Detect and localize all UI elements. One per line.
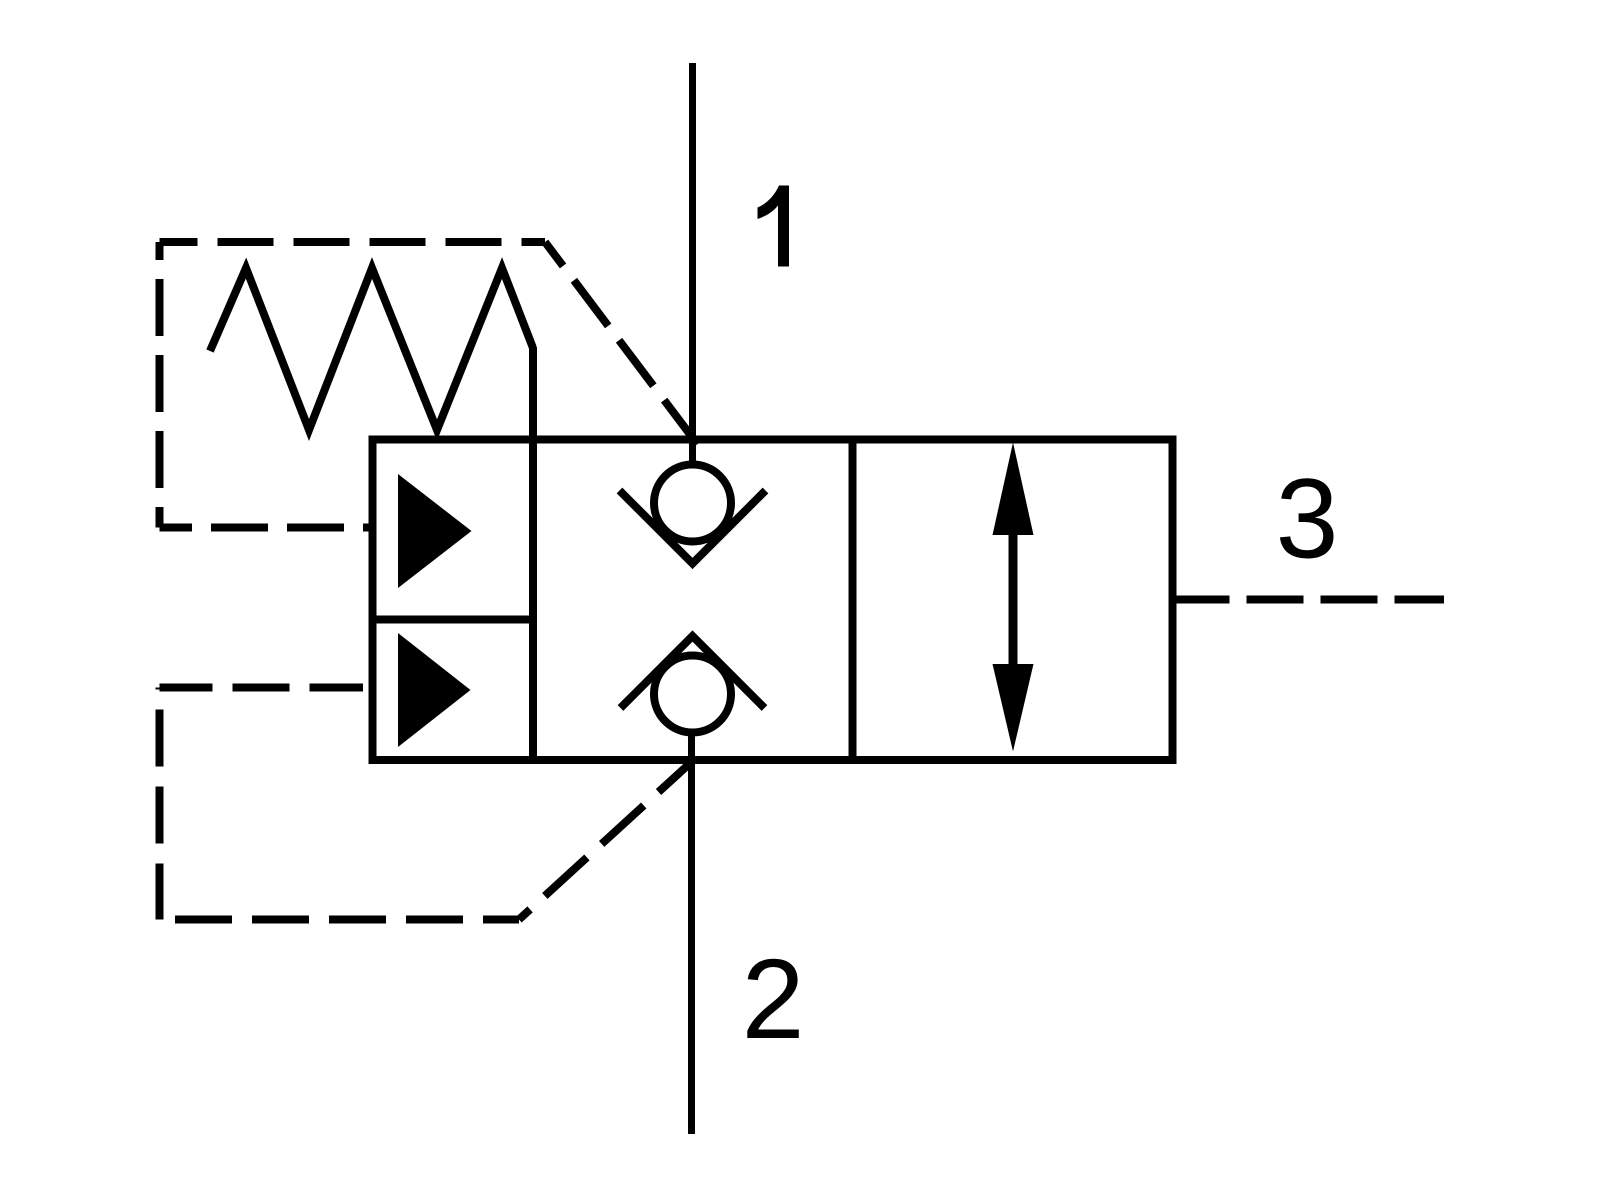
flow arrow double-headed	[993, 443, 1034, 752]
pilot triangle lower	[398, 633, 471, 747]
wire divider right	[849, 440, 857, 761]
wire pilot dashed upper top edge	[160, 238, 546, 246]
check valve upper	[620, 465, 766, 564]
wire pilot dashed upper diagonal	[545, 242, 697, 444]
wire pilot dashed upper left edge	[156, 242, 164, 528]
wire pilot dashed upper bottom edge	[160, 524, 373, 532]
wire pilot dashed lower top edge	[160, 684, 364, 692]
pilot triangle upper	[398, 474, 472, 588]
check valve lower	[621, 636, 765, 733]
wire pilot dashed lower diagonal	[519, 757, 696, 919]
spring	[210, 268, 533, 430]
wire divider with spring connection	[529, 347, 537, 760]
wire pilot dashed lower bottom edge	[160, 916, 520, 924]
node 1 label	[758, 186, 790, 267]
wire port 2 vertical line	[688, 733, 695, 1134]
wire pilot dashed lower left edge	[156, 688, 164, 920]
wire pilot cell divider	[373, 616, 534, 624]
valve body outline	[373, 440, 1173, 761]
wire port 3 dashed line	[1173, 596, 1445, 604]
svg-text:2: 2	[742, 936, 805, 1062]
wire port 1 vertical line	[689, 63, 696, 466]
svg-text:3: 3	[1276, 456, 1339, 582]
